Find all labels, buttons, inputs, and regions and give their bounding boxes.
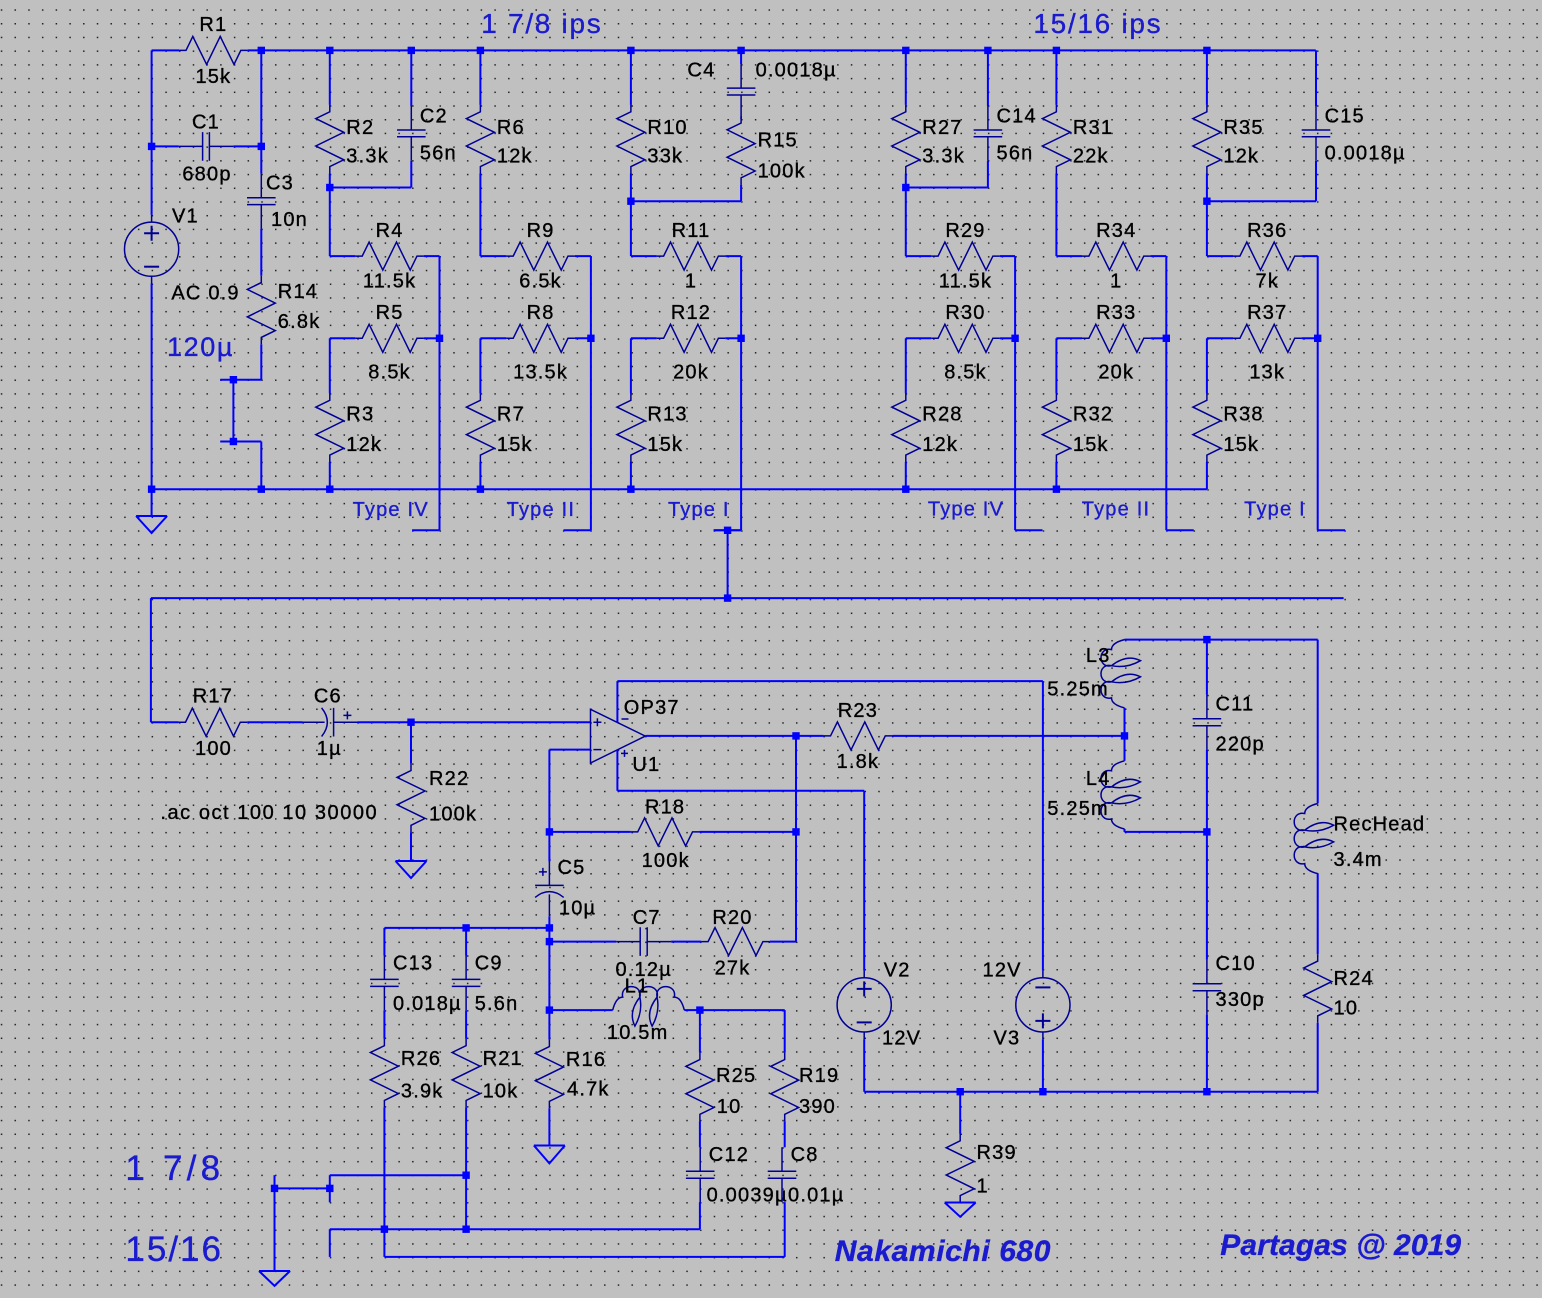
wire bbox=[1206, 832, 1208, 960]
svg-text:680p: 680p bbox=[182, 163, 231, 185]
junction bbox=[462, 1226, 469, 1233]
wire bbox=[220, 379, 261, 381]
wire bbox=[480, 337, 506, 339]
junction bbox=[1053, 486, 1060, 493]
wire bbox=[152, 49, 180, 51]
wire bbox=[1317, 1023, 1319, 1092]
wire bbox=[795, 736, 797, 942]
wire bbox=[1055, 174, 1057, 257]
wire bbox=[905, 50, 907, 105]
svg-text:R16: R16 bbox=[566, 1049, 606, 1071]
resistor R31 bbox=[1042, 105, 1070, 174]
wire bbox=[1014, 256, 1016, 338]
svg-text:220p: 220p bbox=[1216, 734, 1265, 756]
junction bbox=[587, 335, 594, 342]
wire bbox=[1000, 255, 1015, 257]
resistor R14 bbox=[247, 276, 275, 345]
wire bbox=[260, 50, 262, 173]
junction bbox=[627, 486, 634, 493]
svg-text:12V: 12V bbox=[983, 960, 1022, 982]
svg-text:C14: C14 bbox=[997, 106, 1037, 128]
voltage source V2 bbox=[837, 971, 891, 1040]
wire bbox=[1125, 831, 1207, 833]
wire bbox=[590, 256, 592, 338]
resistor R19 bbox=[771, 1053, 799, 1122]
ground bbox=[396, 832, 427, 878]
svg-text:1µ: 1µ bbox=[317, 738, 342, 760]
wire link bbox=[631, 200, 741, 202]
wire bbox=[151, 284, 153, 490]
svg-text:R12: R12 bbox=[671, 302, 711, 324]
svg-text:R27: R27 bbox=[922, 117, 962, 139]
wire bbox=[1207, 255, 1233, 257]
resistor R20 bbox=[701, 928, 770, 956]
svg-text:15/16 ips: 15/16 ips bbox=[1033, 8, 1162, 39]
wire bbox=[1206, 462, 1208, 489]
resistor R2 bbox=[316, 105, 344, 174]
wire bbox=[549, 1009, 612, 1011]
svg-text:10: 10 bbox=[717, 1096, 742, 1118]
svg-text:R11: R11 bbox=[672, 220, 711, 242]
junction bbox=[1203, 636, 1210, 643]
svg-text:R2: R2 bbox=[346, 117, 374, 139]
wire stub bbox=[564, 529, 591, 531]
svg-text:C10: C10 bbox=[1216, 953, 1256, 975]
wire bbox=[479, 338, 481, 393]
svg-text:15k: 15k bbox=[497, 434, 533, 456]
svg-text:R38: R38 bbox=[1223, 404, 1263, 426]
wire bbox=[1125, 639, 1317, 641]
svg-text:R37: R37 bbox=[1247, 302, 1287, 324]
capacitor C12 bbox=[686, 1147, 715, 1202]
wire bbox=[330, 337, 356, 339]
capacitor C3 bbox=[247, 174, 276, 229]
wire bbox=[151, 721, 179, 723]
svg-text:1 7/8 ips: 1 7/8 ips bbox=[481, 8, 602, 39]
svg-text:R36: R36 bbox=[1247, 220, 1287, 242]
svg-text:8.5k: 8.5k bbox=[944, 362, 987, 384]
wire bbox=[740, 338, 742, 530]
wire bus bbox=[864, 1091, 1317, 1093]
resistor R7 bbox=[466, 393, 494, 462]
wire stub bbox=[714, 529, 741, 531]
junction bbox=[408, 47, 415, 54]
junction bbox=[546, 1006, 553, 1013]
wire bbox=[329, 338, 331, 393]
svg-text:R3: R3 bbox=[346, 404, 374, 426]
svg-text:12k: 12k bbox=[346, 434, 382, 456]
resistor R16 bbox=[535, 1040, 563, 1109]
svg-text:10n: 10n bbox=[271, 209, 308, 231]
wire bbox=[740, 185, 742, 202]
resistor R25 bbox=[686, 1053, 714, 1122]
inductor L4 bbox=[1101, 761, 1141, 829]
resistor R22 bbox=[397, 764, 425, 833]
wire bbox=[329, 174, 331, 188]
wire bbox=[1206, 338, 1208, 393]
capacitor C10 bbox=[1193, 960, 1222, 1015]
svg-text:0.0018µ: 0.0018µ bbox=[756, 60, 837, 82]
resistor R12 bbox=[657, 324, 726, 352]
wire bbox=[1302, 337, 1318, 339]
svg-text:R6: R6 bbox=[497, 117, 525, 139]
wire bbox=[684, 1009, 700, 1011]
svg-text:0.018µ: 0.018µ bbox=[393, 993, 462, 1015]
resistor R10 bbox=[617, 105, 645, 174]
svg-text:C11: C11 bbox=[1216, 694, 1255, 716]
svg-text:C7: C7 bbox=[633, 907, 661, 929]
svg-text:R21: R21 bbox=[483, 1048, 523, 1070]
wire bbox=[1207, 337, 1233, 339]
resistor R24 bbox=[1304, 954, 1332, 1023]
capacitor C11 bbox=[1193, 695, 1222, 750]
svg-text:R23: R23 bbox=[838, 700, 878, 722]
junction bbox=[326, 184, 333, 191]
wire bbox=[1056, 255, 1082, 257]
wire bbox=[410, 50, 412, 106]
svg-text:12V: 12V bbox=[882, 1027, 921, 1049]
svg-text:10: 10 bbox=[1334, 998, 1359, 1020]
wire bbox=[1315, 161, 1317, 201]
svg-text:C5: C5 bbox=[558, 857, 586, 879]
svg-text:56n: 56n bbox=[997, 142, 1034, 164]
junction bbox=[627, 47, 634, 54]
junction bbox=[1314, 335, 1321, 342]
wire bbox=[329, 50, 331, 105]
svg-text:1: 1 bbox=[977, 1176, 989, 1198]
wire long bus bbox=[151, 597, 1344, 599]
wire supply bbox=[616, 681, 618, 722]
svg-text:5.6n: 5.6n bbox=[475, 993, 519, 1015]
svg-text:15k: 15k bbox=[647, 434, 683, 456]
wire bbox=[590, 338, 592, 530]
wire bbox=[384, 927, 549, 929]
svg-text:33k: 33k bbox=[647, 146, 683, 168]
svg-text:1.8k: 1.8k bbox=[837, 751, 880, 773]
wire link bbox=[330, 187, 412, 189]
wire bbox=[1000, 337, 1015, 339]
resistor R35 bbox=[1193, 105, 1221, 174]
wire bottom bus bbox=[152, 488, 1207, 490]
ground bbox=[534, 1108, 565, 1163]
resistor R13 bbox=[617, 393, 645, 462]
svg-text:R17: R17 bbox=[193, 685, 233, 707]
wire bbox=[439, 256, 441, 338]
wire bbox=[905, 338, 907, 393]
resistor R29 bbox=[931, 242, 1000, 270]
svg-text:Nakamichi 680: Nakamichi 680 bbox=[835, 1235, 1051, 1268]
junction bbox=[326, 1185, 333, 1192]
resistor R28 bbox=[892, 393, 920, 462]
svg-text:1 7/8: 1 7/8 bbox=[125, 1149, 224, 1188]
svg-text:20k: 20k bbox=[673, 362, 709, 384]
wire bbox=[740, 256, 742, 338]
svg-text:13.5k: 13.5k bbox=[513, 362, 568, 384]
wire bbox=[424, 337, 440, 339]
wire bbox=[631, 255, 657, 257]
svg-text:L3: L3 bbox=[1086, 645, 1111, 667]
svg-text:C13: C13 bbox=[393, 953, 433, 975]
wire bbox=[383, 1107, 385, 1257]
wire bbox=[784, 1121, 786, 1147]
svg-text:R31: R31 bbox=[1073, 117, 1113, 139]
resistor R38 bbox=[1193, 393, 1221, 462]
wire bbox=[1124, 708, 1126, 736]
svg-text:C8: C8 bbox=[791, 1144, 819, 1166]
wire bbox=[260, 344, 262, 379]
wire bbox=[1317, 338, 1319, 530]
wire bbox=[630, 174, 632, 202]
svg-text:13k: 13k bbox=[1249, 362, 1285, 384]
wire bbox=[1055, 338, 1057, 393]
wire bbox=[575, 255, 591, 257]
wire bbox=[383, 928, 385, 956]
wire bbox=[549, 941, 616, 943]
polarized capacitor C6 bbox=[303, 708, 358, 737]
wire bbox=[410, 161, 412, 188]
wire bbox=[465, 1107, 467, 1229]
wire bbox=[740, 50, 742, 64]
svg-text:Type II: Type II bbox=[1082, 499, 1150, 521]
inductor RecHead bbox=[1294, 804, 1334, 874]
resistor R27 bbox=[892, 105, 920, 174]
resistor R32 bbox=[1042, 393, 1070, 462]
junction bbox=[148, 143, 155, 150]
svg-text:.ac oct 100 10 30000: .ac oct 100 10 30000 bbox=[160, 802, 378, 824]
wire bbox=[1206, 750, 1208, 832]
junction bbox=[326, 47, 333, 54]
svg-text:R35: R35 bbox=[1223, 117, 1263, 139]
svg-text:11.5k: 11.5k bbox=[939, 271, 992, 293]
resistor R18 bbox=[631, 818, 700, 846]
wire bbox=[1315, 50, 1317, 106]
wire bbox=[1124, 736, 1126, 761]
ground bbox=[945, 1203, 976, 1217]
wire bbox=[1014, 338, 1016, 530]
wire bbox=[247, 721, 303, 723]
resistor R34 bbox=[1082, 242, 1151, 270]
svg-text:U1: U1 bbox=[632, 754, 660, 776]
resistor R3 bbox=[316, 393, 344, 462]
junction bbox=[902, 184, 909, 191]
svg-text:R25: R25 bbox=[716, 1065, 756, 1087]
junction bbox=[258, 143, 265, 150]
svg-text:330p: 330p bbox=[1216, 989, 1265, 1011]
wire bbox=[631, 337, 657, 339]
svg-text:27k: 27k bbox=[715, 958, 751, 980]
svg-text:1: 1 bbox=[1110, 271, 1122, 293]
svg-text:20k: 20k bbox=[1098, 362, 1134, 384]
capacitor C2 bbox=[397, 106, 426, 161]
wire bbox=[260, 442, 262, 490]
svg-text:0.01µ: 0.01µ bbox=[788, 1185, 844, 1207]
wire bbox=[232, 380, 234, 442]
junction bbox=[407, 719, 414, 726]
svg-text:R22: R22 bbox=[429, 768, 469, 790]
wire bbox=[1055, 50, 1057, 105]
wire bbox=[671, 941, 701, 943]
svg-text:C2: C2 bbox=[420, 106, 448, 128]
wire bbox=[1206, 640, 1208, 695]
wire bbox=[1315, 50, 1317, 106]
wire bbox=[150, 598, 152, 722]
junction bbox=[477, 486, 484, 493]
resistor R39 bbox=[946, 1134, 974, 1203]
resistor R4 bbox=[355, 242, 424, 270]
junction bbox=[230, 376, 237, 383]
svg-text:8.5k: 8.5k bbox=[368, 362, 411, 384]
wire bbox=[1056, 337, 1082, 339]
svg-text:10.5m: 10.5m bbox=[607, 1022, 669, 1044]
wire bbox=[630, 50, 632, 105]
wire bbox=[548, 916, 550, 941]
wire stub bbox=[1015, 529, 1042, 531]
svg-text:15k: 15k bbox=[1223, 434, 1259, 456]
resistor R6 bbox=[466, 105, 494, 174]
svg-text:0.0018µ: 0.0018µ bbox=[1325, 142, 1406, 164]
wire bbox=[1151, 337, 1167, 339]
wire bbox=[906, 337, 931, 339]
junction bbox=[1203, 198, 1210, 205]
wire bbox=[905, 462, 907, 489]
svg-text:6.8k: 6.8k bbox=[278, 311, 321, 333]
svg-text:Type I: Type I bbox=[1244, 499, 1306, 521]
wire bbox=[645, 735, 823, 737]
svg-text:3.3k: 3.3k bbox=[922, 146, 965, 168]
wire bbox=[548, 832, 550, 862]
wire bbox=[439, 338, 441, 530]
svg-text:1: 1 bbox=[685, 271, 697, 293]
svg-text:15/16: 15/16 bbox=[125, 1230, 223, 1269]
junction bbox=[957, 1088, 964, 1095]
svg-text:4.7k: 4.7k bbox=[567, 1079, 610, 1101]
wire bbox=[480, 255, 506, 257]
svg-text:12k: 12k bbox=[497, 146, 533, 168]
wire bus bbox=[330, 1228, 700, 1230]
op-amp U1 bbox=[591, 709, 646, 763]
wire bbox=[152, 145, 179, 147]
wire bbox=[725, 255, 741, 257]
wire stub bbox=[1318, 529, 1345, 531]
svg-text:C4: C4 bbox=[687, 60, 715, 82]
svg-text:V3: V3 bbox=[994, 1027, 1021, 1049]
svg-text:R15: R15 bbox=[758, 130, 798, 152]
junction bbox=[737, 47, 744, 54]
svg-text:OP37: OP37 bbox=[624, 697, 680, 719]
junction bbox=[1203, 1088, 1210, 1095]
junction bbox=[148, 486, 155, 493]
junction bbox=[258, 47, 265, 54]
wire bbox=[1165, 256, 1167, 338]
svg-text:10µ: 10µ bbox=[559, 897, 596, 919]
wire bbox=[784, 1010, 786, 1053]
svg-text:15k: 15k bbox=[1073, 434, 1109, 456]
wire bbox=[479, 50, 481, 105]
wire bbox=[1206, 174, 1208, 202]
svg-text:22k: 22k bbox=[1073, 146, 1109, 168]
resistor R8 bbox=[506, 324, 575, 352]
svg-text:C9: C9 bbox=[475, 953, 503, 975]
svg-text:R18: R18 bbox=[645, 797, 685, 819]
svg-text:12k: 12k bbox=[922, 434, 958, 456]
wire bbox=[329, 188, 331, 257]
wire stub bbox=[412, 529, 439, 531]
wire bbox=[784, 1202, 786, 1257]
resistor R11 bbox=[657, 242, 726, 270]
wire bbox=[863, 1039, 865, 1092]
junction bbox=[984, 47, 991, 54]
junction bbox=[792, 828, 799, 835]
wire bbox=[905, 174, 907, 188]
junction bbox=[696, 1006, 703, 1013]
wire bbox=[725, 337, 741, 339]
svg-text:R5: R5 bbox=[376, 302, 404, 324]
wire bbox=[329, 462, 331, 489]
wire bbox=[1317, 640, 1319, 804]
junction bbox=[1039, 1088, 1046, 1095]
svg-text:C15: C15 bbox=[1325, 106, 1365, 128]
svg-text:R19: R19 bbox=[799, 1065, 839, 1087]
svg-text:Partagas @ 2019: Partagas @ 2019 bbox=[1220, 1229, 1461, 1262]
wire bbox=[383, 1010, 385, 1039]
svg-text:100k: 100k bbox=[429, 804, 477, 826]
svg-text:12k: 12k bbox=[1223, 146, 1259, 168]
wire bbox=[329, 1175, 331, 1188]
svg-text:R4: R4 bbox=[376, 220, 404, 242]
junction bbox=[902, 486, 909, 493]
wire link bbox=[1207, 200, 1316, 202]
wire bbox=[465, 1010, 467, 1039]
svg-text:5.25m: 5.25m bbox=[1047, 678, 1109, 700]
wire bbox=[548, 942, 550, 1040]
capacitor C4 bbox=[727, 64, 756, 119]
junction bbox=[1203, 828, 1210, 835]
wire bbox=[1317, 256, 1319, 338]
svg-text:C3: C3 bbox=[266, 173, 294, 195]
svg-text:R26: R26 bbox=[401, 1048, 441, 1070]
junction bbox=[902, 47, 909, 54]
capacitor C15 bbox=[1302, 106, 1331, 161]
svg-text:120µ: 120µ bbox=[167, 332, 234, 362]
wire bbox=[549, 831, 630, 833]
wire bbox=[1206, 1015, 1208, 1092]
junction bbox=[462, 924, 469, 931]
svg-text:V1: V1 bbox=[172, 206, 199, 228]
junction bbox=[546, 924, 553, 931]
svg-text:5.25m: 5.25m bbox=[1047, 798, 1109, 820]
wire bbox=[330, 255, 356, 257]
voltage source V3 bbox=[1016, 971, 1070, 1040]
wire bbox=[892, 735, 1124, 737]
svg-text:3.9k: 3.9k bbox=[401, 1080, 444, 1102]
junction bbox=[724, 594, 731, 601]
junction bbox=[1011, 335, 1018, 342]
svg-text:R9: R9 bbox=[527, 220, 555, 242]
junction bbox=[627, 198, 634, 205]
wire stub bbox=[329, 1229, 331, 1257]
svg-text:15k: 15k bbox=[195, 66, 231, 88]
junction bbox=[1121, 732, 1128, 739]
resistor R9 bbox=[506, 242, 575, 270]
svg-text:R1: R1 bbox=[199, 14, 227, 36]
wire bbox=[233, 145, 261, 147]
wire bbox=[700, 1009, 785, 1011]
wire bbox=[479, 174, 481, 257]
svg-text:3.3k: 3.3k bbox=[346, 146, 389, 168]
svg-text:11.5k: 11.5k bbox=[363, 271, 416, 293]
wire stub bbox=[274, 1175, 276, 1188]
wire stub bbox=[329, 1188, 331, 1202]
